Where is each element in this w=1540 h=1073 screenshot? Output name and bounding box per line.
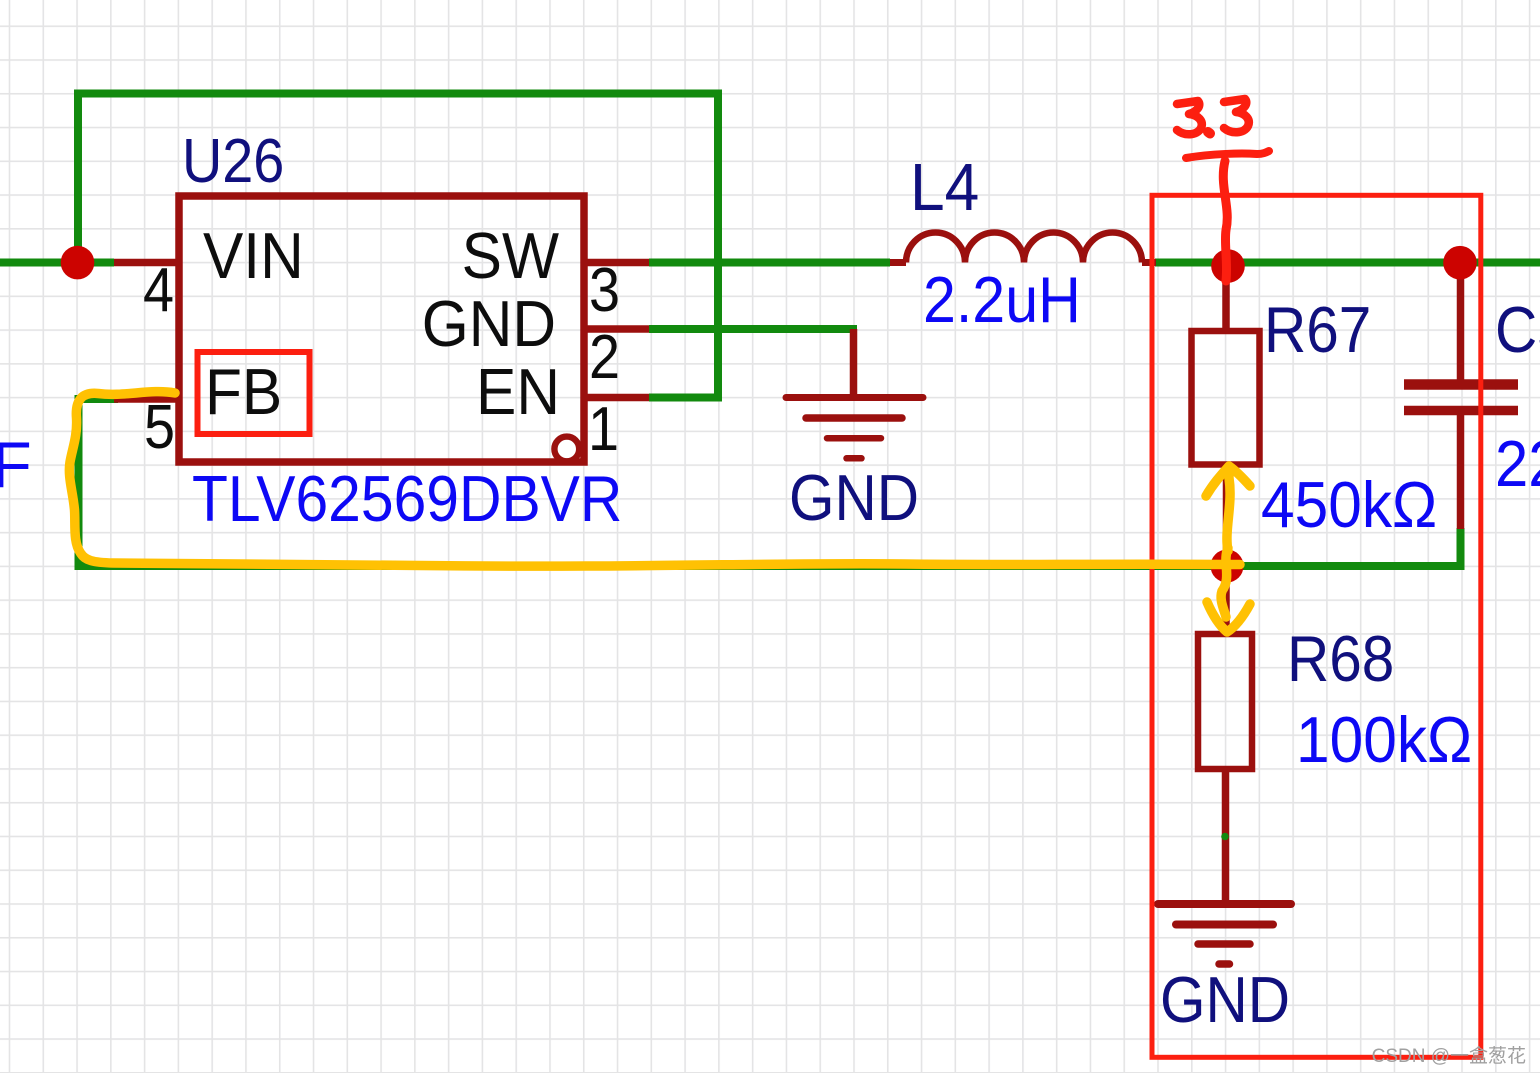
wire VIN-EN top loop bbox=[78, 94, 718, 398]
svg-text:450kΩ: 450kΩ bbox=[1261, 469, 1437, 541]
svg-text:GND: GND bbox=[789, 462, 919, 535]
inductor L4 bbox=[890, 259, 1156, 266]
svg-text:FB: FB bbox=[205, 356, 282, 428]
highlight rect around R67/R68 divider bbox=[1152, 195, 1481, 1057]
svg-text:EN: EN bbox=[476, 356, 560, 428]
svg-text:GND: GND bbox=[1160, 964, 1290, 1037]
highlight rect around FB pin name bbox=[198, 352, 310, 434]
svg-text:TLV62569DBVR: TLV62569DBVR bbox=[192, 463, 622, 535]
svg-text:R68: R68 bbox=[1287, 623, 1394, 696]
capacitor C (feedforward) bbox=[1457, 263, 1465, 382]
wire GND pin bbox=[649, 325, 857, 333]
pin stub FB pin5 bbox=[114, 395, 178, 403]
wire VIN net left bbox=[0, 259, 114, 267]
junction node FB divider bbox=[1211, 550, 1244, 583]
svg-text:L4: L4 bbox=[910, 149, 979, 225]
pin-1 marker circle bbox=[554, 437, 579, 462]
svg-text:3: 3 bbox=[589, 256, 620, 324]
svg-text:GND: GND bbox=[422, 288, 556, 360]
svg-text:22p: 22p bbox=[1495, 428, 1540, 501]
pin stub GND pin2 bbox=[584, 325, 649, 333]
junction node VOUT-R67 bbox=[1211, 249, 1245, 283]
svg-text:2: 2 bbox=[589, 323, 620, 391]
highlighter yellow FB trace bbox=[69, 392, 1250, 632]
svg-text:5: 5 bbox=[144, 393, 175, 461]
IC U26 body (TLV62569DBVR) bbox=[179, 196, 584, 462]
pin stub SW pin3 bbox=[584, 259, 649, 267]
resistor R67 bbox=[1222, 263, 1230, 332]
svg-text:F: F bbox=[0, 428, 32, 501]
svg-text:U26: U26 bbox=[182, 127, 284, 195]
svg-text:4: 4 bbox=[143, 256, 174, 324]
wire FB net loop bbox=[79, 399, 1461, 566]
ground symbol near IC bbox=[786, 329, 923, 458]
pin stub EN pin1 bbox=[584, 394, 649, 402]
node dot on R68-GND wire bbox=[1221, 833, 1229, 841]
svg-text:R67: R67 bbox=[1264, 294, 1371, 367]
junction node VOUT-C bbox=[1443, 246, 1477, 280]
svg-text:CSDN @一盒葱花: CSDN @一盒葱花 bbox=[1372, 1045, 1526, 1067]
svg-text:C3: C3 bbox=[1495, 294, 1540, 367]
svg-text:VIN: VIN bbox=[203, 220, 304, 292]
annotation 3.3 handwritten bbox=[1177, 99, 1269, 281]
pin stub VIN pin4 bbox=[114, 259, 178, 267]
svg-text:100kΩ: 100kΩ bbox=[1296, 704, 1472, 776]
wire SW to L4 bbox=[649, 259, 890, 267]
ground symbol bottom bbox=[1158, 904, 1291, 964]
svg-text:SW: SW bbox=[462, 220, 560, 292]
svg-text:2.2uH: 2.2uH bbox=[923, 264, 1081, 336]
wire L4 to output bbox=[1155, 259, 1540, 267]
svg-text:1: 1 bbox=[588, 395, 619, 463]
resistor R68 bbox=[1222, 566, 1230, 634]
junction node VIN bbox=[61, 246, 95, 280]
